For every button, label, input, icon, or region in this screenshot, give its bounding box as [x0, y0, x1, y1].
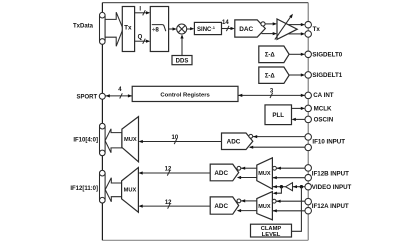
pin IF10 (bus pill)	[100, 123, 106, 155]
bus arrow MUX to IF12	[105, 178, 121, 202]
multiplier (mixer)	[177, 24, 187, 34]
svg-text:LEVEL: LEVEL	[262, 232, 281, 238]
svg-text:10: 10	[172, 135, 179, 141]
pin MCLK	[305, 105, 312, 112]
node DAC output	[261, 22, 265, 26]
svg-text:VIDEO INPUT: VIDEO INPUT	[312, 184, 352, 191]
block DDS	[172, 56, 192, 65]
wire Control Registers to CA INT, 3-bit bus	[238, 89, 305, 98]
pin SIGDELT0	[305, 51, 312, 58]
wire MUX12A to ADC12A lower	[237, 209, 257, 212]
svg-text:12: 12	[165, 166, 172, 172]
svg-text:IF12A INPUT: IF12A INPUT	[312, 203, 349, 210]
svg-text:IF12[11:0]: IF12[11:0]	[70, 186, 98, 192]
svg-text:MUX: MUX	[124, 137, 137, 143]
svg-text:IF12B INPUT: IF12B INPUT	[312, 171, 349, 178]
wire VIDEO pin to buffer	[293, 185, 305, 188]
svg-text:OSCIN: OSCIN	[314, 117, 334, 124]
node video junction	[300, 185, 303, 188]
wire sigma-delta 0 to pin	[289, 53, 305, 56]
chip outline	[102, 3, 308, 241]
wire sigma-delta 1 to pin	[289, 73, 305, 76]
svg-text:MUX: MUX	[258, 204, 271, 210]
svg-text:IF10 INPUT: IF10 INPUT	[312, 138, 345, 145]
node ADC10 input	[249, 134, 253, 138]
node MUX12A input	[272, 199, 276, 203]
wire ADC10 to MUX, 10-bit bus	[139, 135, 222, 144]
mux U10	[122, 117, 139, 162]
pin IF12B INPUT minus	[305, 174, 312, 181]
svg-text:÷8: ÷8	[152, 26, 159, 33]
wire amp to Tx pin upper	[289, 23, 306, 26]
pin VIDEO INPUT	[305, 183, 312, 190]
wire DDS to multiplier	[180, 34, 183, 55]
block CLAMP LEVEL	[251, 224, 292, 238]
wire IF12A pin upper to MUX12A	[276, 200, 305, 203]
svg-text:14: 14	[222, 20, 229, 26]
mux U12B	[257, 158, 273, 189]
wire MUX12B to ADC12B upper	[241, 167, 257, 170]
pin IF12A INPUT plus	[305, 198, 312, 205]
svg-text:Control Registers: Control Registers	[160, 92, 210, 98]
svg-text:Tx: Tx	[313, 26, 321, 33]
block SINC inverse filter	[194, 22, 221, 34]
wire IF10 pin lower to ADC10	[249, 146, 305, 149]
op-amp video buffer	[286, 183, 293, 191]
svg-text:IF10[4:0]: IF10[4:0]	[73, 137, 98, 143]
svg-text:TxData: TxData	[73, 23, 94, 29]
svg-text:ADC: ADC	[214, 203, 228, 210]
svg-text:Σ-Δ: Σ-Δ	[265, 53, 276, 59]
block DAC	[235, 20, 265, 37]
wire SINC to DAC, 14-bit bus	[222, 20, 235, 31]
svg-text:Σ-Δ: Σ-Δ	[265, 74, 276, 80]
adc ADC12A	[210, 197, 239, 214]
svg-text:SIGDELT1: SIGDELT1	[312, 72, 342, 79]
pin SIGDELT1	[305, 72, 312, 79]
svg-text:MUX: MUX	[258, 171, 271, 177]
wire clamp level to video junction	[292, 187, 302, 232]
pin Tx minus	[305, 31, 312, 38]
bus arrow MUX to IF10	[105, 129, 122, 153]
pin IF12A INPUT minus	[305, 207, 312, 214]
wire amp to Tx pin lower	[289, 32, 306, 35]
wire IF12B pin upper to MUX12B	[277, 167, 306, 170]
svg-text:DAC: DAC	[239, 26, 253, 33]
pin OSCIN	[305, 116, 312, 123]
svg-text:DDS: DDS	[176, 59, 189, 65]
svg-text:12: 12	[165, 200, 172, 206]
pin IF12B INPUT plus	[305, 165, 312, 172]
block Tx	[122, 7, 134, 52]
svg-text:MCLK: MCLK	[314, 105, 332, 112]
mux U12	[122, 168, 139, 213]
wire SPORT to Control Registers, 4-bit bus	[105, 87, 132, 98]
svg-text:Tx: Tx	[124, 25, 132, 32]
wire filter to multiplier	[169, 27, 177, 30]
op-amp Tx output (variable gain)	[275, 14, 297, 40]
node ADC12B input	[237, 166, 241, 170]
svg-text:Q: Q	[138, 35, 143, 41]
wire IF12B pin lower to MUX12B	[273, 176, 306, 179]
node video branch	[280, 185, 283, 188]
wire ADC12B to MUX, 12-bit bus	[138, 166, 210, 175]
pin IF10 INPUT minus	[305, 144, 312, 151]
wire DAC to amp (lower)	[262, 32, 278, 35]
block PLL	[265, 105, 292, 125]
block sigma-delta 0	[259, 46, 289, 63]
wire Q	[135, 35, 151, 44]
mux U12A	[257, 192, 273, 220]
pin CA INT	[305, 92, 312, 99]
pin Tx plus	[305, 21, 312, 28]
svg-text:PLL: PLL	[272, 112, 284, 119]
svg-text:MUX: MUX	[124, 188, 137, 194]
adc ADC12B	[210, 164, 239, 181]
svg-text:SIGDELT0: SIGDELT0	[312, 52, 342, 59]
wire multiplier to SINC	[187, 27, 195, 30]
wire MUX12A to ADC12A upper	[241, 199, 257, 202]
block interpolation filter ÷8	[150, 7, 168, 52]
adc ADC10	[222, 133, 253, 150]
svg-text:CA INT: CA INT	[313, 92, 334, 99]
pin IF12 (bus pill)	[100, 170, 106, 203]
wire DAC to amp (upper)	[265, 22, 277, 25]
wire IF10 pin upper to ADC10	[253, 135, 305, 138]
wire video branch to MUX12A	[273, 187, 282, 195]
bus arrow TxData to Tx	[105, 12, 123, 46]
wire IF12A pin lower to MUX12A	[273, 209, 306, 212]
wire I	[135, 6, 151, 15]
pin TxData (bus pill)	[100, 12, 106, 44]
wire OSCIN to PLL	[292, 118, 306, 121]
svg-text:SPORT: SPORT	[77, 95, 98, 101]
pin SPORT	[99, 93, 105, 99]
svg-text:ADC: ADC	[227, 139, 241, 146]
block Control Registers	[132, 86, 238, 101]
block sigma-delta 1	[259, 67, 289, 83]
svg-text:ADC: ADC	[214, 170, 228, 177]
wire MUX12B to ADC12B lower	[237, 176, 257, 179]
wire PLL to MCLK	[292, 107, 306, 110]
node ADC12A input	[237, 199, 241, 203]
node MUX12B input	[273, 166, 277, 170]
wire buffer to MUX12B	[273, 185, 286, 188]
pin IF10 INPUT plus	[305, 134, 312, 141]
wire ADC12A to MUX, 12-bit bus	[138, 200, 210, 209]
